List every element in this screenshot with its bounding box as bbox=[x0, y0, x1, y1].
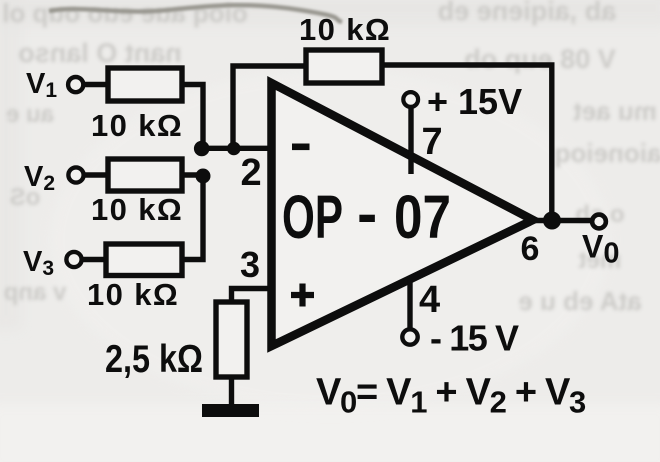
svg-text:10 kΩ: 10 kΩ bbox=[87, 277, 179, 312]
wire: feedback top-right from R4 to output column bbox=[382, 65, 552, 218]
wire V3 terminal to R3 bbox=[83, 257, 107, 262]
svg-text:ab ,aiqiene eb: ab ,aiqiene eb bbox=[438, 0, 617, 26]
input terminal V3 bbox=[66, 252, 81, 267]
terminal +15V bbox=[403, 92, 418, 107]
wire R2 to summing bus bbox=[182, 172, 205, 177]
svg-text:aioneioq: aioneioq bbox=[555, 138, 660, 168]
svg-text:v anp: v anp bbox=[4, 279, 67, 306]
wire R5 to ground bbox=[229, 377, 234, 406]
wire op-amp pin 3 to R5 bbox=[232, 289, 269, 303]
terminal V0 bbox=[592, 215, 606, 229]
junction dot node C (V2 / bus) bbox=[196, 169, 211, 184]
wire pin 7 (V+) bbox=[408, 107, 413, 174]
svg-text:OP-07: OP-07 bbox=[282, 180, 451, 252]
svg-text:V 08 eup ob: V 08 eup ob bbox=[464, 44, 616, 74]
svg-text:7: 7 bbox=[422, 121, 443, 163]
wire output pin 6 to V0 terminal bbox=[533, 218, 594, 223]
svg-text:10 kΩ: 10 kΩ bbox=[91, 192, 183, 227]
ground bbox=[202, 404, 259, 417]
svg-text:au e: au e bbox=[6, 101, 54, 128]
svg-text:2,5 kΩ: 2,5 kΩ bbox=[105, 338, 203, 381]
svg-text:10 kΩ: 10 kΩ bbox=[91, 108, 183, 143]
terminal -15V bbox=[402, 329, 417, 344]
svg-text:4: 4 bbox=[419, 279, 440, 321]
svg-text:+ 15V: + 15V bbox=[427, 81, 522, 122]
svg-text:mu aet: mu aet bbox=[573, 96, 657, 126]
svg-text:2: 2 bbox=[241, 152, 262, 194]
wire pin 4 (V-) bbox=[407, 280, 412, 329]
svg-text:V0= V1 + V2 + V3: V0= V1 + V2 + V3 bbox=[316, 372, 586, 420]
svg-text:6: 6 bbox=[521, 230, 540, 268]
op-amp U1 OP-07 triangle bbox=[272, 83, 534, 346]
resistor R3 10k bbox=[106, 244, 182, 276]
wire V2 terminal to R2 bbox=[85, 172, 109, 177]
resistor R1 10k bbox=[108, 68, 182, 101]
wire: feedback top-left from inverting node up to R4 bbox=[233, 66, 306, 148]
wire R1 to summing bus bbox=[182, 85, 203, 149]
resistor R4 10k (feedback) bbox=[306, 50, 382, 83]
wire R3 to summing bus bbox=[182, 172, 203, 260]
wire V1 terminal to R1 bbox=[84, 82, 108, 87]
op-amp non-inverting input plus sign bbox=[291, 284, 314, 307]
svg-text:atA eb u e: atA eb u e bbox=[518, 286, 641, 316]
svg-text:3: 3 bbox=[240, 244, 260, 285]
resistor R5 2.5k bbox=[216, 302, 247, 377]
junction dot node A (bus / node wire) bbox=[194, 141, 210, 157]
op-amp inverting input minus sign bbox=[292, 144, 310, 151]
junction dot node B (feedback / node wire) bbox=[227, 142, 241, 156]
input terminal V1 bbox=[68, 77, 83, 92]
svg-text:nant O lanso: nant O lanso bbox=[18, 38, 182, 68]
svg-text:- 15 V: - 15 V bbox=[430, 318, 519, 359]
resistor R2 10k bbox=[108, 159, 182, 191]
junction dot output node bbox=[543, 212, 561, 230]
svg-text:10 kΩ: 10 kΩ bbox=[299, 12, 391, 47]
input terminal V2 bbox=[68, 167, 83, 182]
wire summing node to op-amp inverting input pin 2 bbox=[200, 146, 268, 151]
